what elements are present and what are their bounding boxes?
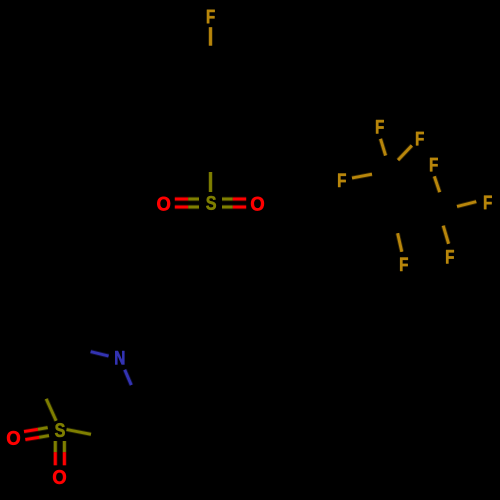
wire bond F7-C, F half xyxy=(443,226,448,244)
atom F3 (CF3-a fluorine upper-right) xyxy=(416,132,424,145)
wire bond F6-C, F half xyxy=(457,202,476,207)
atom F8 (C-F fluorine, cluster bottom-left) xyxy=(400,258,408,271)
atom O2 (sulfonyl oxygen right) xyxy=(251,197,264,211)
wire bond F1-C(aryl), F half xyxy=(208,27,213,46)
atom S2 (ring sulfone sulfur) xyxy=(55,423,65,437)
wire bond C-S2 up-left, S half xyxy=(46,399,56,421)
atom O4 (ring sulfone oxygen bottom) xyxy=(53,470,66,484)
wire bond N-C down-right, N half xyxy=(125,370,132,385)
atom F2 (CF3-a fluorine up) xyxy=(376,120,384,133)
atom F5 (CF3-b fluorine up) xyxy=(430,158,438,171)
atom F4 (CF3-a fluorine left) xyxy=(338,174,346,187)
double bond S1=O1 xyxy=(175,199,199,207)
wire bond F4-C, F half xyxy=(352,174,372,178)
wire bond F8-C, F half xyxy=(398,233,402,252)
atom O3 (ring sulfone oxygen left) xyxy=(7,431,20,445)
wire bond S2-C right, S half xyxy=(67,430,92,435)
wire bond N-C left, N half xyxy=(91,352,109,356)
wire bond F5-C, F half xyxy=(434,176,439,192)
wire bond C(aryl)-S1, S half xyxy=(208,172,213,192)
double bond S2=O4 xyxy=(55,441,64,465)
double bond S2=O3 xyxy=(24,428,49,440)
atom N (ring nitrogen) xyxy=(115,351,124,364)
atom O1 (sulfonyl oxygen left) xyxy=(157,197,170,211)
wire bond F3-C, F half xyxy=(398,146,412,161)
atom F7 (CF3-b fluorine down) xyxy=(446,250,454,263)
double bond S1=O2 xyxy=(222,199,246,207)
atom S1 (aryl sulfonyl sulfur) xyxy=(206,196,216,210)
wire bond F2-C, F half xyxy=(381,139,386,156)
atom F1 (aryl fluorine, top) xyxy=(207,10,215,23)
atom F6 (CF3-b fluorine right) xyxy=(484,196,492,209)
